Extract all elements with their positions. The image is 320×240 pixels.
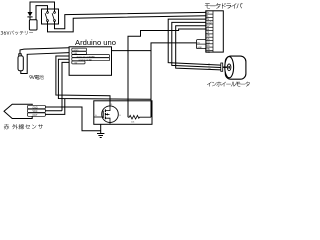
svg-text:Arduino uno: Arduino uno (75, 38, 116, 47)
9V battery B2 (18, 54, 23, 71)
switch S1 (DPST main switch) box (42, 9, 59, 24)
Arduino pin GND (72, 48, 87, 52)
resistor R1 (128, 115, 151, 123)
wire driver pin to MOSFET resistor node (128, 29, 206, 117)
wire driver to motor phase V (172, 22, 221, 67)
ground (97, 124, 104, 137)
MOSFET subcircuit box (94, 101, 152, 125)
IR sensor pin OUT (28, 113, 46, 117)
wire sensor OUT to rail (45, 99, 65, 115)
Arduino pin VIN (72, 51, 87, 55)
wire Arduino 5V to sensor VCC (62, 62, 69, 110)
Arduino pin 5V (72, 61, 85, 65)
label インホイールモータ (207, 82, 250, 87)
label U (209, 63, 211, 65)
motor driver pin strip (206, 11, 213, 54)
wire switch pole2 to motor driver 36V bus 1 (55, 12, 206, 28)
36V battery B1 (29, 20, 37, 30)
label モータドライバ (205, 3, 243, 9)
svg-text:HC: HC (206, 51, 210, 54)
wire driver to motor phase W (176, 26, 221, 70)
MOSFET source stub to box bottom (109, 123, 111, 125)
switch S1 pole 2 (52, 12, 55, 22)
label 赤外線センサ (4, 124, 43, 129)
label V (209, 66, 211, 68)
label W (209, 68, 212, 70)
wire sensor GND to common ground (45, 107, 100, 131)
wire driver to motor phase U (168, 19, 221, 65)
wire resistor riser to driver connector J1 (151, 43, 197, 117)
IR sensor pin GND (28, 105, 46, 109)
label 9V電池 (29, 75, 43, 80)
MOSFET Q1 (94, 104, 122, 123)
Arduino uno box U1 (69, 47, 111, 76)
motor driver lower connector J1 (197, 40, 206, 49)
Arduino pin digital 3 PWM (72, 55, 110, 59)
svg-text:OUT: OUT (33, 115, 38, 117)
wire Arduino right side to resistor riser (112, 50, 152, 52)
diode D1 (27, 2, 32, 20)
IR sensor pin VCC (28, 109, 46, 113)
wire Arduino digital pin to MOSFET drain (56, 56, 110, 106)
switch S1 pole 1 (45, 12, 48, 22)
label Arduino uno (75, 38, 116, 47)
wire battery+ via diode to switch pole2 top (30, 2, 55, 12)
wire switch pole1 to motor driver 36V bus 2 (48, 16, 206, 32)
label 36Vバッテリー (1, 31, 33, 35)
wire Arduino analog pin rail L2 (58, 59, 151, 99)
wire 9V battery + to Arduino pin GND (20, 48, 69, 54)
in-wheel motor M1 (221, 56, 246, 79)
wire battery- to switch pole1 top (36, 6, 48, 20)
IR sensor body (4, 104, 32, 118)
svg-text:GND: GND (197, 47, 202, 49)
wire 9V battery - to Arduino VIN pin (21, 53, 69, 74)
wire sensor VCC (45, 110, 62, 112)
Arduino pin analog A0 (72, 58, 110, 62)
motor driver box U2 (206, 11, 224, 52)
